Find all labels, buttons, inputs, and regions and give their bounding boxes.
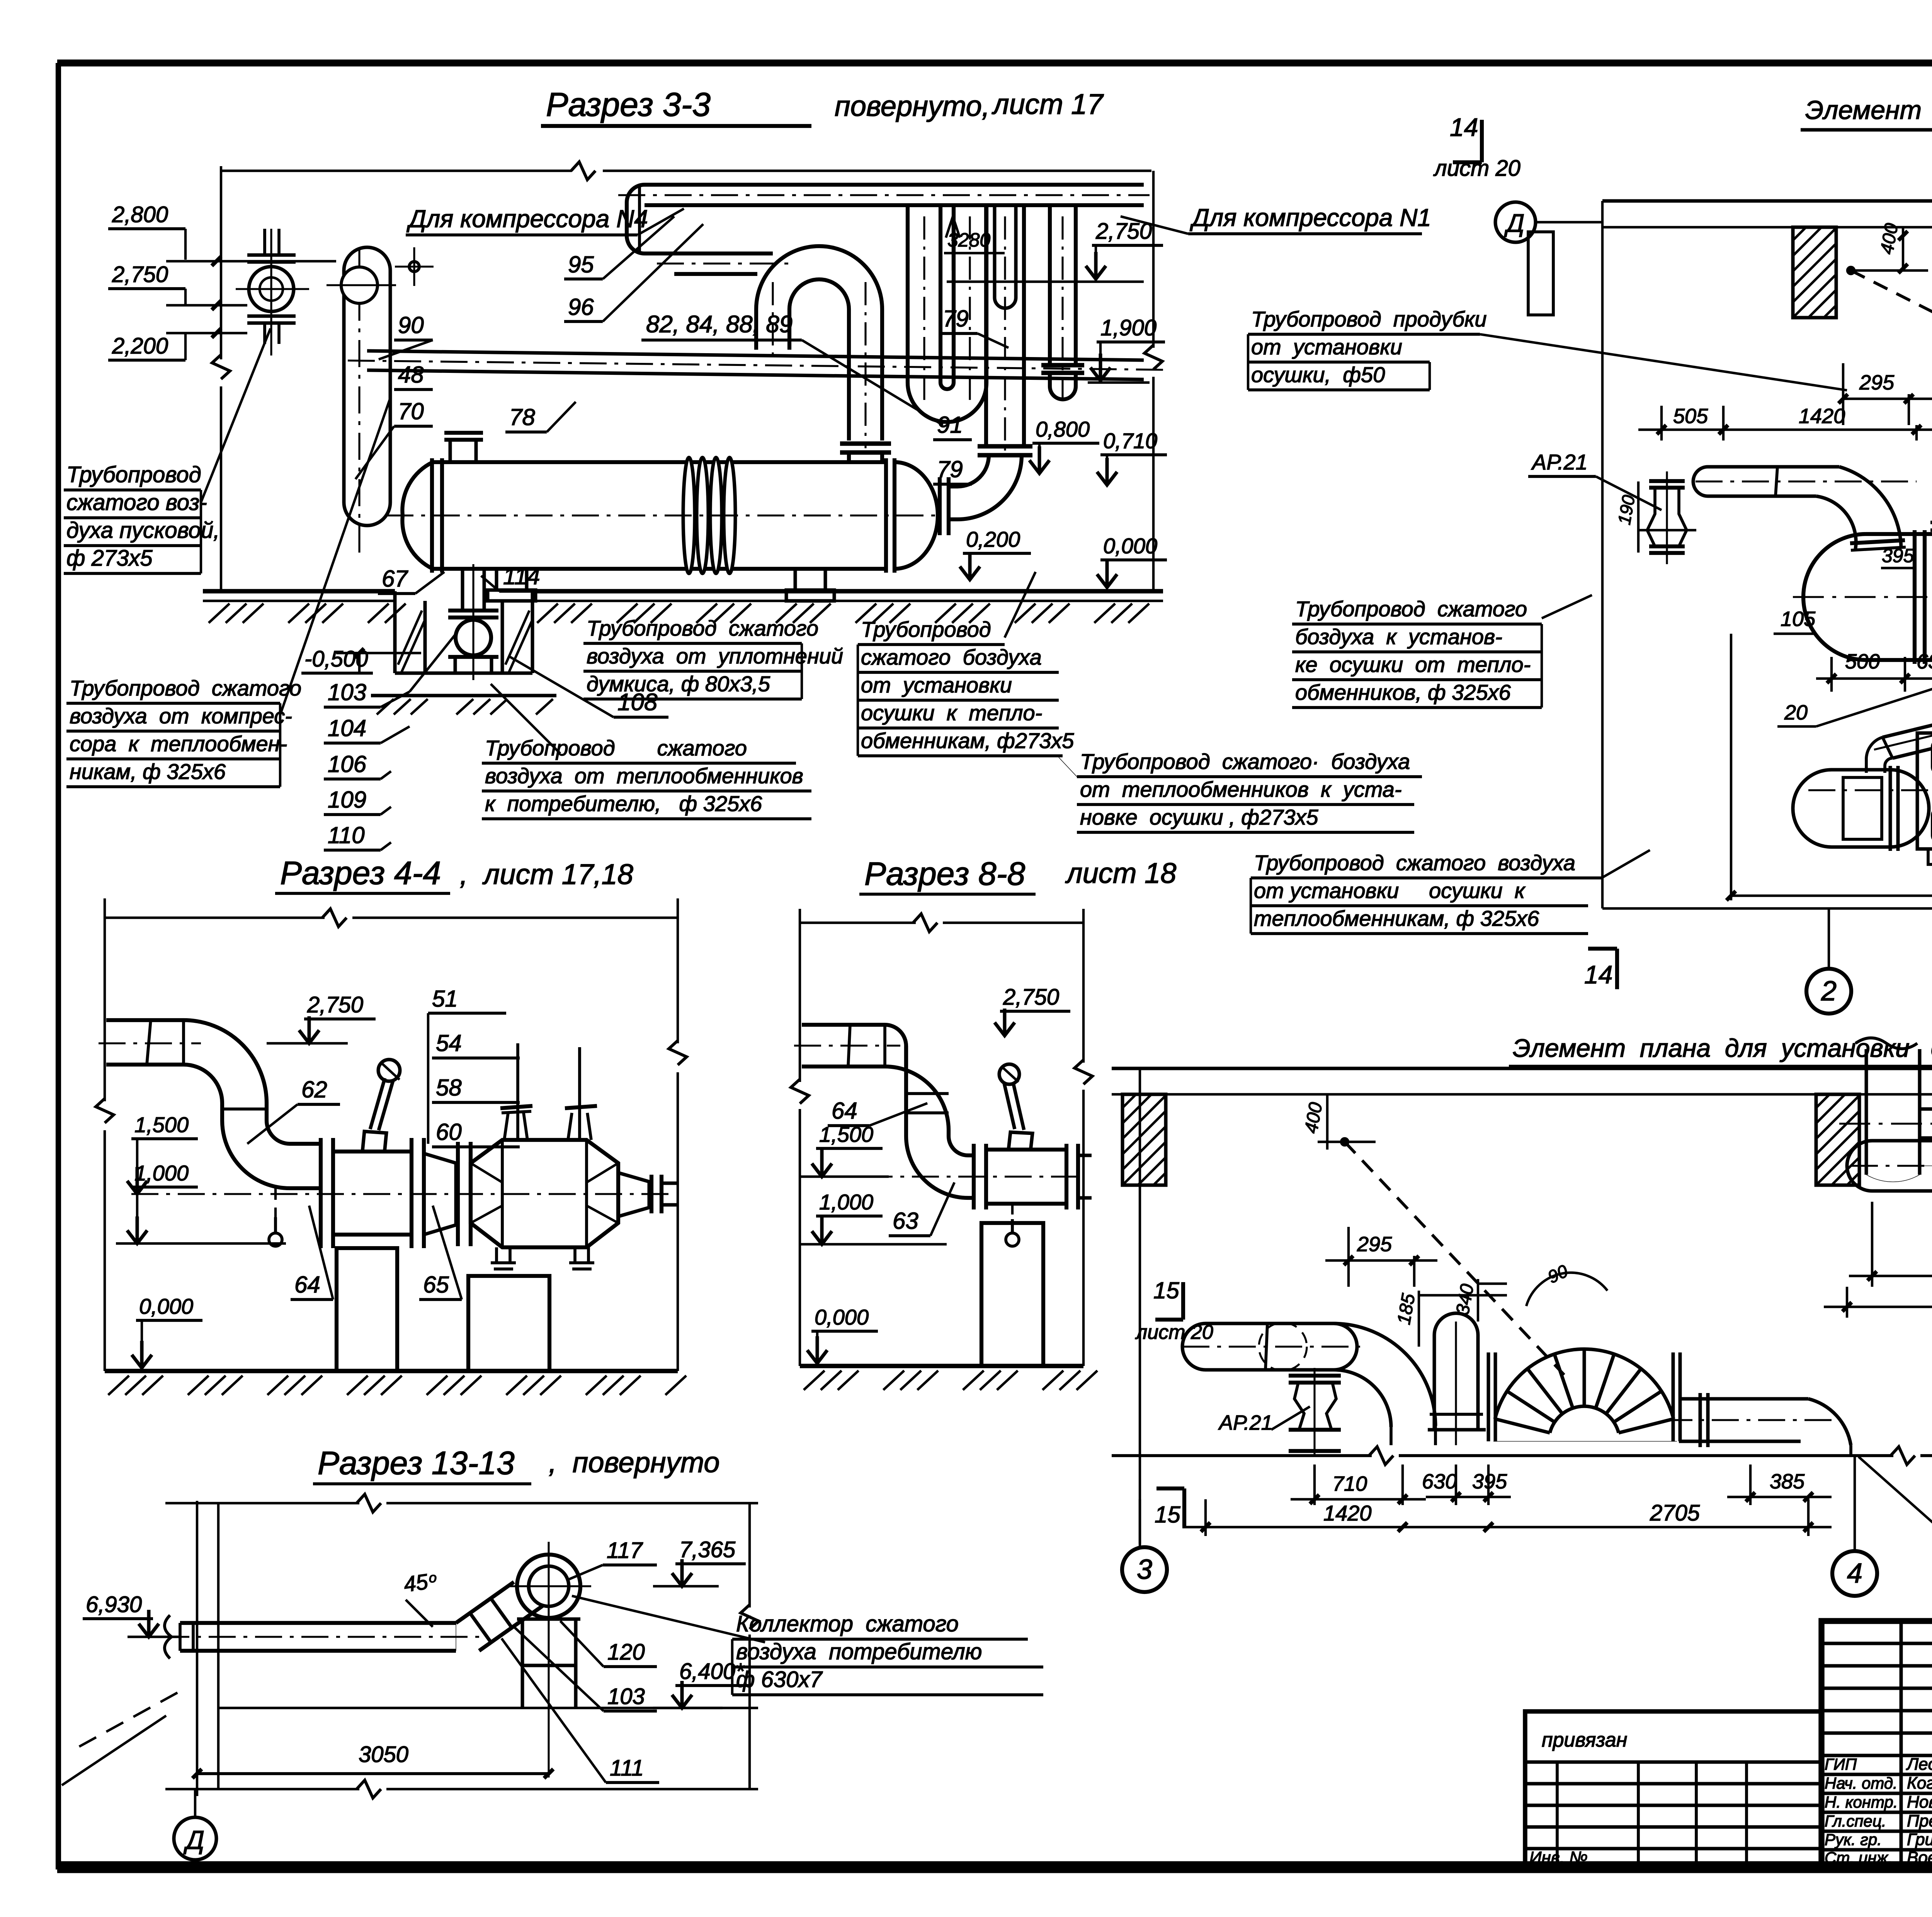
svg-text:думкиса, ф 80х3,5: думкиса, ф 80х3,5 xyxy=(587,672,770,696)
svg-text:51: 51 xyxy=(432,986,458,1012)
svg-text:64: 64 xyxy=(294,1272,320,1298)
svg-text:110: 110 xyxy=(328,822,365,848)
svg-text:АР.21: АР.21 xyxy=(1531,450,1588,474)
svg-text:боздуха к установ-: боздуха к установ- xyxy=(1295,624,1502,649)
right dim line 13-13 xyxy=(748,1503,751,1607)
svg-text:Григорбян: Григорбян xyxy=(1907,1830,1932,1849)
sloped pipe over unit N1 xyxy=(1883,663,1932,737)
svg-text:Трубопровод продубки: Трубопровод продубки xyxy=(1251,307,1487,331)
leader from list to pit xyxy=(410,634,456,692)
pipe cross-section circle (line 48 top) xyxy=(358,247,360,553)
right boundary line 3-3 xyxy=(1152,171,1155,348)
svg-text:710: 710 xyxy=(1332,1472,1367,1495)
left boundary 8-8 xyxy=(799,909,801,1082)
riser left N23 xyxy=(1865,1049,1868,1175)
svg-text:привязан: привязан xyxy=(1542,1729,1627,1751)
svg-text:сора к теплообмен-: сора к теплообмен- xyxy=(70,731,287,756)
svg-text:Воеводина: Воеводина xyxy=(1907,1848,1932,1867)
flange and cap on arch right leg xyxy=(840,441,891,446)
svg-text:103: 103 xyxy=(328,679,366,705)
exchanger saddle supports xyxy=(497,569,527,590)
svg-text:Д: Д xyxy=(1504,209,1524,237)
svg-text:к потребителю, ф 325х6: к потребителю, ф 325х6 xyxy=(485,791,762,816)
elbow cap 8-8 xyxy=(885,1025,906,1067)
svg-text:ке осушки от тепло-: ке осушки от тепло- xyxy=(1295,652,1531,677)
svg-text:3: 3 xyxy=(1137,1554,1152,1585)
svg-text:от установки осушки к: от установки осушки к xyxy=(1254,878,1526,903)
svg-text:630: 630 xyxy=(1917,650,1932,673)
svg-text:14: 14 xyxy=(1450,113,1478,141)
joint lines on elbow 4-4 xyxy=(182,1020,185,1065)
svg-text:6,930: 6,930 xyxy=(86,1592,142,1617)
svg-text:67: 67 xyxy=(382,566,408,592)
bend 45 deg 13-13 xyxy=(456,1582,514,1623)
floor line plan N23 xyxy=(1112,1454,1372,1457)
privyazan table xyxy=(1525,1711,1821,1867)
elbow from pipe B to exchanger dome xyxy=(949,455,1022,519)
svg-text:0,000: 0,000 xyxy=(1103,534,1157,558)
svg-text:96: 96 xyxy=(568,294,594,320)
svg-text:лист 17: лист 17 xyxy=(992,88,1104,120)
svg-text:ф 630х7: ф 630х7 xyxy=(736,1667,823,1692)
svg-text:Трубопровод сжатого: Трубопровод сжатого xyxy=(587,616,818,640)
svg-text:Нач. отд.: Нач. отд. xyxy=(1825,1774,1898,1792)
svg-text:Трубопровод сжатого: Трубопровод сжатого xyxy=(485,736,747,760)
svg-text:2,750: 2,750 xyxy=(1003,985,1059,1010)
privyazan table rows xyxy=(1525,1761,1821,1764)
collector cross-section circle 13-13 xyxy=(517,1555,580,1618)
svg-text:2,800: 2,800 xyxy=(112,202,168,227)
tee body 8-8 xyxy=(986,1148,1066,1152)
svg-text:103: 103 xyxy=(607,1684,645,1709)
svg-text:111: 111 xyxy=(610,1755,644,1781)
svg-text:295: 295 xyxy=(1859,371,1895,394)
top dim line 13-13 xyxy=(165,1502,359,1504)
svg-text:Пресков: Пресков xyxy=(1907,1812,1932,1830)
ground hatching 3-3 right xyxy=(537,604,1149,623)
second manifold pipe lower xyxy=(674,252,773,255)
centerlines 13-13 xyxy=(548,1542,549,1778)
heat exchanger vessel body xyxy=(433,460,886,464)
svg-text:62: 62 xyxy=(301,1077,327,1102)
svg-text:лист 20: лист 20 xyxy=(1433,156,1520,181)
svg-text:117: 117 xyxy=(607,1538,643,1563)
vertical pipe D with flange and U-cap xyxy=(1048,205,1052,365)
refrigeration unit N1 left capsule xyxy=(1832,768,1890,772)
svg-text:3050: 3050 xyxy=(359,1742,408,1767)
svg-text:58: 58 xyxy=(436,1075,462,1101)
svg-text:505: 505 xyxy=(1673,405,1708,428)
exchanger left top nozzle xyxy=(449,439,452,462)
svg-text:114: 114 xyxy=(503,563,540,589)
svg-text:осушки, ф50: осушки, ф50 xyxy=(1251,362,1385,387)
svg-text:, лист 17,18: , лист 17,18 xyxy=(460,858,633,890)
svg-text:от установки: от установки xyxy=(1251,335,1402,359)
support under circle 13-13 xyxy=(517,1618,580,1621)
pipe elbow S down 4-4 xyxy=(184,1020,267,1103)
svg-text:500: 500 xyxy=(1845,650,1880,673)
reducer cone 4-4 xyxy=(424,1153,456,1235)
joint lines 8-8 xyxy=(906,1092,949,1095)
svg-text:78: 78 xyxy=(509,404,535,430)
level mark 2.800 xyxy=(212,257,221,266)
vertical pipe 48/70 down to U-cap xyxy=(342,270,346,502)
svg-text:Коллектор сжатого: Коллектор сжатого xyxy=(736,1611,959,1636)
left boundary 4-4 xyxy=(104,898,106,1101)
svg-text:от теплообменников к уста-: от теплообменников к уста- xyxy=(1080,777,1402,801)
svg-text:106: 106 xyxy=(328,751,367,777)
circled D bottom xyxy=(174,1817,216,1860)
svg-text:воздуха от компрес-: воздуха от компрес- xyxy=(70,704,292,728)
exchanger centerline xyxy=(386,514,935,516)
svg-text:Разрез 8-8: Разрез 8-8 xyxy=(864,856,1026,892)
compressor N4 top elbow xyxy=(627,185,645,236)
svg-text:0,000: 0,000 xyxy=(815,1305,869,1329)
svg-text:Рук. гр.: Рук. гр. xyxy=(1825,1830,1882,1849)
svg-text:Инв. №: Инв. № xyxy=(1529,1848,1588,1867)
svg-text:395: 395 xyxy=(1882,545,1914,566)
svg-text:20: 20 xyxy=(1784,701,1808,724)
elbow down-right 8-8 xyxy=(906,1136,968,1198)
svg-text:1,500: 1,500 xyxy=(819,1122,873,1146)
svg-text:АР.21: АР.21 xyxy=(1218,1411,1273,1434)
leader from compressor block xyxy=(280,398,390,715)
svg-text:Трубопровод: Трубопровод xyxy=(861,617,991,641)
svg-text:15: 15 xyxy=(1155,1502,1180,1527)
svg-text:ГИП: ГИП xyxy=(1825,1755,1857,1773)
vertical pipe 8-8 xyxy=(904,1046,908,1136)
svg-text:60: 60 xyxy=(436,1119,462,1145)
pit wall hatching xyxy=(398,611,532,673)
svg-text:2,750: 2,750 xyxy=(307,992,363,1017)
svg-text:7,365: 7,365 xyxy=(679,1537,736,1562)
left assembly pipe capsule N2 floor xyxy=(1206,1322,1334,1325)
svg-text:64: 64 xyxy=(832,1098,857,1124)
drain node 8-8 xyxy=(1011,1204,1014,1231)
sheet border frame xyxy=(57,60,1932,66)
centerline 4-4 assembly xyxy=(131,1193,672,1195)
svg-text:14: 14 xyxy=(1584,960,1612,989)
level mark 2.750 xyxy=(212,301,221,310)
svg-text:Для компрессора N4: Для компрессора N4 xyxy=(406,205,648,233)
svg-text:Трубопровод сжатого: Трубопровод сжатого xyxy=(70,676,301,700)
svg-text:4: 4 xyxy=(1847,1558,1862,1589)
svg-text:Трубопровод сжатого: Трубопровод сжатого xyxy=(1295,597,1527,621)
columns plan N23 xyxy=(1122,1094,1166,1185)
left verticals 13-13 xyxy=(196,1501,198,1796)
segmented bend N2 floor xyxy=(1495,1349,1673,1419)
svg-text:63: 63 xyxy=(893,1208,918,1234)
small node circle at level 2.75 xyxy=(409,262,419,272)
ground line 3-3 xyxy=(203,589,395,594)
ground hatching 3-3 left xyxy=(209,604,406,623)
svg-text:воздуха от теплообменников: воздуха от теплообменников xyxy=(485,764,803,788)
inner U-cap stub inside pipe B xyxy=(993,205,997,298)
elbow down to vessel N1 xyxy=(1839,467,1901,549)
valve on starting air line xyxy=(263,229,266,255)
tee flange 8-8 xyxy=(972,1144,976,1209)
elbow end down N2 xyxy=(1808,1399,1851,1445)
incoming pipe horizontal 4-4 xyxy=(106,1018,184,1022)
svg-text:15: 15 xyxy=(1153,1277,1179,1303)
svg-text:Д: Д xyxy=(183,1825,204,1855)
svg-text:никам, ф 325х6: никам, ф 325х6 xyxy=(70,759,226,784)
svg-text:6,400*: 6,400* xyxy=(679,1659,745,1684)
flange on pipe B xyxy=(978,444,1032,449)
main vessel N1 xyxy=(1866,532,1932,536)
svg-text:Н. контр.: Н. контр. xyxy=(1825,1793,1898,1811)
collector pipe horizontal 13-13 xyxy=(180,1621,456,1625)
svg-text:, повернуто: , повернуто xyxy=(549,1446,720,1478)
svg-text:2,750: 2,750 xyxy=(1095,219,1152,244)
exchanger bellows xyxy=(683,458,695,573)
dashed sight line N23 left xyxy=(1345,1142,1564,1375)
svg-text:2,750: 2,750 xyxy=(112,262,168,287)
svg-text:109: 109 xyxy=(328,787,366,813)
pedestal 8-8 xyxy=(981,1223,1043,1366)
dryer N2 assembly plan xyxy=(1872,1139,1932,1143)
svg-text:0,800: 0,800 xyxy=(1036,417,1090,441)
svg-text:воздуха потребителю: воздуха потребителю xyxy=(736,1639,982,1664)
leader from starting air block to valve xyxy=(201,328,270,502)
pedestal under filter 4-4 xyxy=(468,1276,549,1371)
filter top stubs 4-4 xyxy=(504,1043,527,1140)
flange pair before filter 4-4 xyxy=(456,1142,460,1246)
svg-text:70: 70 xyxy=(398,398,424,424)
dim 505 and 1420 N1 xyxy=(1660,406,1663,441)
svg-text:54: 54 xyxy=(436,1030,462,1056)
tee with handwheel 4-4 xyxy=(319,1138,323,1248)
centerline 8-8 assembly xyxy=(819,1175,1078,1177)
svg-text:Трубопровод: Трубопровод xyxy=(66,462,201,487)
svg-text:79: 79 xyxy=(937,456,963,482)
column plan N1 xyxy=(1793,227,1836,318)
leader consumer block xyxy=(491,684,560,754)
left assembly elbow down N2 xyxy=(1334,1323,1435,1426)
svg-text:45: 45 xyxy=(402,1569,430,1597)
svg-text:Разрез 4-4: Разрез 4-4 xyxy=(280,855,441,891)
svg-text:104: 104 xyxy=(328,715,366,741)
svg-text:1,000: 1,000 xyxy=(134,1161,189,1185)
wall line plan N23 xyxy=(1112,1067,1932,1070)
drain stub with node 4-4 xyxy=(274,1188,277,1231)
dashed sight line N1 xyxy=(1851,270,1932,499)
refrigeration unit motor body xyxy=(1917,733,1932,849)
ground line 8-8 xyxy=(800,1364,1083,1368)
privyazan table columns xyxy=(1556,1762,1559,1867)
top boundary dimension line 3-3 xyxy=(221,170,572,172)
svg-text:Трубопровод сжатого· боздуха: Трубопровод сжатого· боздуха xyxy=(1080,749,1410,774)
pipe 78 long horizontal xyxy=(367,351,1144,360)
svg-text:Леонов: Леонов xyxy=(1906,1755,1932,1774)
svg-text:воздуха от уплотнений: воздуха от уплотнений xyxy=(587,644,843,668)
n-arch bend xyxy=(756,246,882,441)
svg-text:обменников, ф 325х6: обменников, ф 325х6 xyxy=(1295,680,1511,704)
level mark 2.200 xyxy=(212,328,221,338)
svg-text:48: 48 xyxy=(398,362,424,388)
svg-text:91: 91 xyxy=(937,412,963,438)
line under pipe 13-13 xyxy=(218,1707,758,1709)
left boundary line of section 3-3 xyxy=(220,166,222,359)
svg-text:духа пусковой,: духа пусковой, xyxy=(66,518,219,543)
top manifold pipe upper xyxy=(645,183,1144,187)
vertical capsule N2 floor xyxy=(1433,1335,1436,1430)
svg-text:Элемент плана для установки: Элемент плана для установки осушки N1 xyxy=(1805,95,1932,125)
riser left elbow N23 xyxy=(1866,1175,1920,1182)
svg-text:Гл.спец.: Гл.спец. xyxy=(1825,1812,1886,1830)
leader blowdown to plan xyxy=(1480,334,1847,390)
filter feet 4-4 xyxy=(491,1247,516,1269)
svg-text:79: 79 xyxy=(943,306,969,332)
bottom line 13-13 xyxy=(165,1788,359,1790)
diagonal construction line bottom left xyxy=(79,1692,178,1747)
left dim boundary plan N23 xyxy=(1139,1068,1141,1544)
svg-text:1420: 1420 xyxy=(1799,405,1845,428)
svg-text:2,200: 2,200 xyxy=(112,333,168,359)
svg-text:395: 395 xyxy=(1472,1470,1507,1493)
svg-text:повернуто,: повернуто, xyxy=(835,90,990,122)
filter exit cone 4-4 xyxy=(618,1173,649,1216)
svg-text:Трубопровод сжатого воздуха: Трубопровод сжатого воздуха xyxy=(1254,850,1575,875)
svg-text:Разрез 13-13: Разрез 13-13 xyxy=(318,1445,515,1481)
pipe from AP21 capsule xyxy=(1708,465,1839,469)
bottom long dim line N1 xyxy=(1602,907,1932,910)
svg-text:90: 90 xyxy=(398,312,424,338)
circled 3 N23 xyxy=(1122,1547,1167,1592)
svg-text:2: 2 xyxy=(1821,976,1837,1007)
exchanger flanges xyxy=(430,458,434,573)
svg-text:Новицкая: Новицкая xyxy=(1907,1793,1932,1812)
signature table rows top xyxy=(1821,1642,1932,1645)
svg-text:сжатого боздуха: сжатого боздуха xyxy=(861,645,1042,669)
svg-text:теплообменникам, ф 325х6: теплообменникам, ф 325х6 xyxy=(1254,906,1539,930)
ground line 4-4 xyxy=(105,1369,678,1373)
svg-text:65: 65 xyxy=(423,1272,449,1298)
svg-text:1,900: 1,900 xyxy=(1100,315,1156,340)
pipe to right from bend N2 xyxy=(1679,1397,1808,1401)
wall column stub left plan N1 xyxy=(1528,232,1553,315)
top dim line 8-8 xyxy=(800,922,916,924)
centerline dryer N2 xyxy=(1851,1165,1932,1167)
svg-text:1,500: 1,500 xyxy=(134,1112,189,1137)
svg-text:o: o xyxy=(429,1570,437,1585)
circled 4 N23 xyxy=(1832,1551,1877,1596)
svg-text:лист 18: лист 18 xyxy=(1065,857,1176,889)
svg-text:295: 295 xyxy=(1357,1233,1392,1256)
svg-text:2705: 2705 xyxy=(1650,1500,1700,1526)
svg-text:105: 105 xyxy=(1781,607,1816,631)
svg-text:0,000: 0,000 xyxy=(139,1294,193,1318)
svg-text:1,000: 1,000 xyxy=(819,1190,873,1214)
leader collector text xyxy=(572,1596,765,1642)
ground hatching 8-8 xyxy=(804,1371,1097,1390)
svg-text:630: 630 xyxy=(1422,1470,1457,1493)
svg-text:95: 95 xyxy=(568,252,594,277)
svg-text:осушки к тепло-: осушки к тепло- xyxy=(861,701,1042,725)
right boundary 4-4 xyxy=(677,898,679,1043)
svg-text:Ст. инж.: Ст. инж. xyxy=(1825,1849,1892,1867)
svg-text:1420: 1420 xyxy=(1323,1501,1372,1525)
flange at vessel nozzle N1 xyxy=(1850,540,1905,543)
svg-text:новке осушки , ф273х5: новке осушки , ф273х5 xyxy=(1080,805,1318,829)
pit walls xyxy=(393,591,397,673)
pipe B down to dryer elbow xyxy=(984,205,988,446)
leader from dryer-to-hx block up xyxy=(1005,572,1036,638)
svg-text:0,200: 0,200 xyxy=(966,527,1020,551)
ground hatching 4-4 xyxy=(108,1376,686,1395)
right boundary 8-8 xyxy=(1082,909,1085,1063)
pedestal under tee 4-4 xyxy=(337,1248,397,1371)
unit centerline N1 xyxy=(1808,789,1932,791)
svg-text:82, 84, 88, 89: 82, 84, 88, 89 xyxy=(646,311,793,338)
svg-text:обменникам, ф273х5: обменникам, ф273х5 xyxy=(861,728,1074,753)
title block outer frame xyxy=(1821,1621,1932,1867)
svg-text:Для компрессора N1: Для компрессора N1 xyxy=(1190,204,1431,231)
pipe 48 section circle xyxy=(341,267,378,303)
svg-text:от установки: от установки xyxy=(861,673,1012,697)
svg-text:385: 385 xyxy=(1770,1470,1805,1493)
vertical pair C with U-bend xyxy=(906,205,910,383)
filter vessel 4-4 xyxy=(471,1140,618,1247)
svg-text:120: 120 xyxy=(607,1640,645,1665)
left dim boundary plan N1 xyxy=(1601,201,1604,908)
svg-text:Разрез 3-3: Разрез 3-3 xyxy=(546,86,711,123)
wall line top plan N1 xyxy=(1602,199,1932,203)
svg-text:0,710: 0,710 xyxy=(1103,429,1157,453)
horizontal pipe between risers N23 xyxy=(1920,1107,1932,1111)
incoming pipe 8-8 xyxy=(802,1023,885,1027)
signature table rows bottom xyxy=(1821,1773,1932,1776)
svg-text:ф 273х5: ф 273х5 xyxy=(66,546,153,571)
top dim line 4-4 xyxy=(105,917,325,919)
svg-text:Коган: Коган xyxy=(1907,1774,1932,1793)
circled 2 xyxy=(1806,969,1851,1014)
signature table columns xyxy=(1900,1621,1903,1867)
svg-text:сжатого воз-: сжатого воз- xyxy=(66,490,207,515)
pit drain valve xyxy=(461,569,464,611)
flange at dome nozzle xyxy=(938,477,942,535)
marker D circle xyxy=(1495,202,1536,242)
